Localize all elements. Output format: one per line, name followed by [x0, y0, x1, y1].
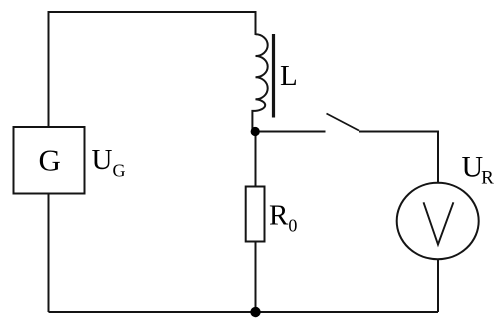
voltmeter V needle glyph: [424, 202, 454, 244]
wire voltmeter bottom lead: [437, 259, 439, 312]
wire left lower (generator bottom to bottom rail): [48, 194, 50, 313]
svg-text:L: L: [280, 60, 298, 92]
wire resistor branch (junction A to junction B): [255, 132, 257, 187]
svg-text:UG: UG: [92, 144, 126, 181]
voltmeter V body: [397, 183, 479, 259]
svg-text:G: G: [39, 143, 61, 178]
wire top (generator top to inductor top): [49, 12, 256, 127]
svg-text:R0: R0: [269, 200, 297, 236]
wire resistor bottom lead: [255, 242, 257, 313]
node A junction dot: [251, 127, 260, 136]
inductor core bar: [272, 34, 275, 118]
wire junction A to switch: [256, 131, 326, 133]
resistor R0 body: [246, 187, 265, 242]
svg-text:UR: UR: [462, 151, 495, 189]
wire switch to right rail: [359, 132, 438, 184]
node B junction dot: [250, 307, 260, 317]
wire bottom rail: [49, 311, 439, 313]
switch S blade: [327, 114, 360, 131]
inductor L coil: [252, 34, 267, 129]
generator G: [14, 127, 85, 194]
